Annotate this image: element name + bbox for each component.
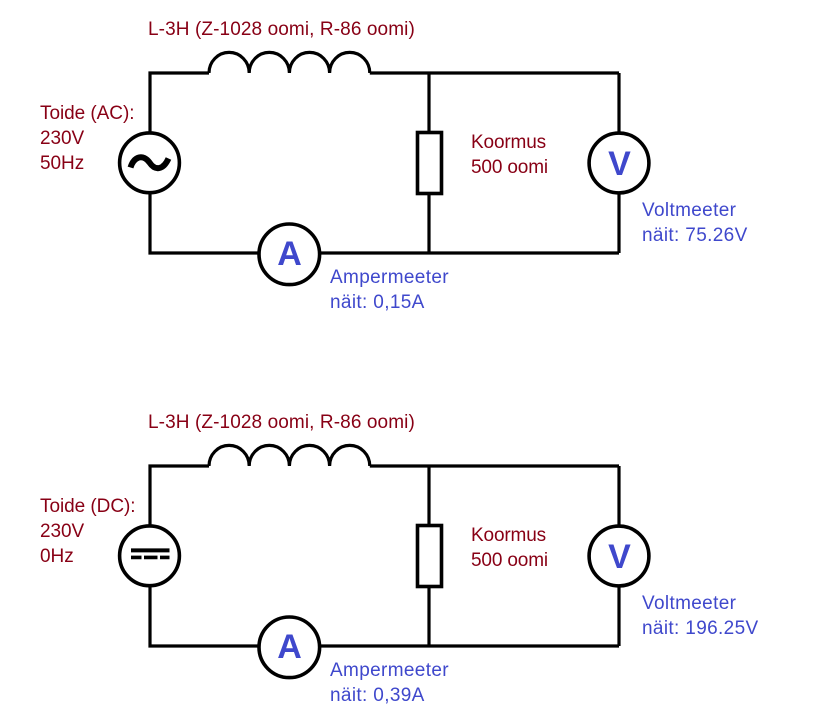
label: voltmeter reading (AC circuit) [642, 198, 748, 248]
wire: middle branch, top wire to load resistor [427, 73, 430, 133]
ammeter circle (DC circuit) [259, 617, 320, 678]
load resistor (Koormus) [418, 133, 442, 194]
wire: top-left segment from DC source corner to inductor [150, 466, 209, 526]
AC source circle [120, 133, 180, 193]
inductor L-3H (4 humps) [209, 52, 370, 73]
DC symbol: solid bar [131, 548, 170, 552]
label: DC supply [40, 494, 136, 569]
label: inductor value (DC circuit) [148, 410, 415, 435]
wire: top segment from inductor to top-right corner (DC circuit) [370, 464, 619, 467]
inductor L-3H (4 humps, DC circuit) [209, 445, 370, 466]
wire: top-left segment from source corner to inductor [150, 73, 209, 133]
wire: top segment from inductor to top-right corner [370, 71, 619, 74]
ammeter letter A (DC circuit) [259, 630, 320, 664]
DC symbol: dashed bar [131, 556, 170, 560]
wire: bottom segment from ammeter to right corner [320, 251, 620, 254]
voltmeter circle U-V1 [589, 133, 649, 193]
AC sine symbol [131, 157, 169, 168]
load resistor (Koormus, DC circuit) [418, 526, 442, 587]
label: voltmeter reading (DC circuit) [642, 591, 759, 641]
wire: voltmeter to bottom-right corner [617, 193, 620, 253]
wire: middle branch, resistor to bottom wire (DC circuit) [427, 587, 430, 647]
label: ammeter reading (DC circuit) [330, 658, 449, 708]
voltmeter letter V (AC circuit) [589, 147, 650, 181]
label: AC supply [40, 101, 134, 176]
wire: middle branch, top wire to load resistor (DC circuit) [427, 466, 430, 526]
wire: source to bottom-left corner [150, 193, 259, 253]
label: inductor value (AC circuit) [148, 17, 415, 42]
ammeter letter A (AC circuit) [259, 237, 320, 271]
voltmeter circle (DC circuit) [589, 526, 649, 586]
wire: right vertical, top corner to voltmeter (DC circuit) [617, 466, 620, 526]
wire: bottom segment from ammeter to right corner (DC circuit) [320, 644, 620, 647]
wire: right vertical, top corner to voltmeter [617, 73, 620, 133]
label: load value (DC circuit) [471, 523, 548, 573]
wire: voltmeter to bottom-right corner (DC circuit) [617, 586, 620, 646]
DC source circle [120, 526, 180, 586]
label: ammeter reading (AC circuit) [330, 265, 449, 315]
voltmeter letter V (DC circuit) [589, 540, 650, 574]
wire: DC source to bottom-left corner [150, 586, 259, 646]
wire: middle branch, resistor to bottom wire [427, 194, 430, 254]
ammeter circle A1 [259, 224, 320, 285]
label: load value (AC circuit) [471, 130, 548, 180]
